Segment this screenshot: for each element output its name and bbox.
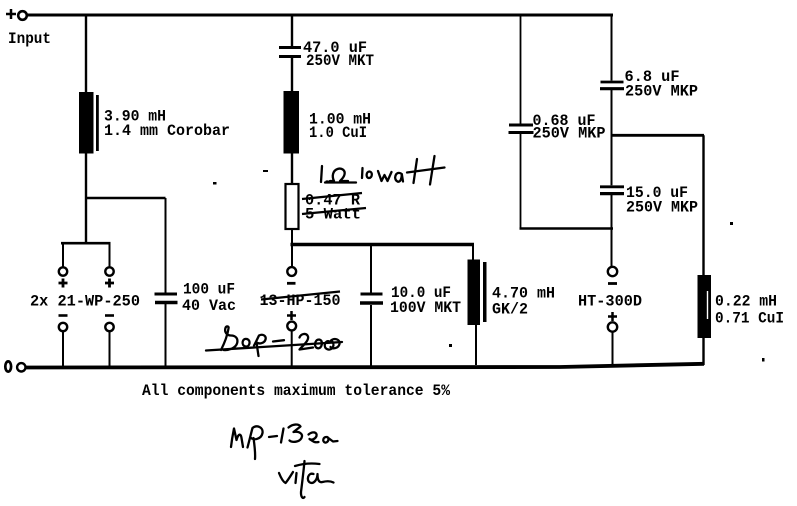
woofer B bottom terminal bbox=[105, 323, 113, 331]
inductor L4 0.22 mH body bbox=[698, 275, 712, 338]
wire mid rail to C3 bbox=[370, 246, 372, 293]
handwritten note 1 ohm 10 watt bbox=[321, 156, 445, 185]
bottom rail wire bbox=[26, 364, 704, 368]
handwritten note Bop-200 bbox=[221, 326, 340, 356]
wire L2 to R1 bbox=[291, 153, 293, 185]
capacitor C3 10uF plates bbox=[360, 294, 383, 303]
woofer B top terminal bbox=[105, 267, 113, 275]
wire tweeter to bottom rail bbox=[612, 332, 614, 368]
inductor L1 3.90 mH body bbox=[79, 92, 99, 154]
wire top rail to C6 bbox=[611, 15, 613, 81]
svg-text:All components maximum toleran: All components maximum tolerance 5% bbox=[142, 382, 450, 400]
woofer A minus mark bbox=[59, 314, 68, 317]
wire top rail to L1 bbox=[85, 15, 87, 93]
wire R1 to mid rail bbox=[291, 229, 293, 247]
wire top rail to C5 bbox=[520, 15, 522, 124]
wire C1 to L2 bbox=[291, 58, 293, 92]
midrange bottom terminal bbox=[287, 322, 296, 331]
strike over 13-HP-150 bbox=[261, 292, 340, 300]
wire branch to L4 down bbox=[702, 135, 704, 276]
svg-text:100 uF: 100 uF bbox=[183, 281, 235, 299]
wire stub to woofer A bbox=[62, 243, 64, 268]
strike over 0.47 R bbox=[302, 193, 362, 199]
svg-text:2x 21-WP-250: 2x 21-WP-250 bbox=[30, 293, 140, 311]
tweeter bottom terminal bbox=[608, 322, 617, 331]
midrange top terminal bbox=[287, 267, 296, 276]
tweeter top terminal bbox=[608, 267, 617, 276]
input plus polarity mark bbox=[6, 9, 16, 19]
capacitor C7 15uF plates bbox=[600, 187, 624, 194]
woofer A bottom terminal bbox=[59, 323, 67, 331]
woofer B minus mark bbox=[105, 314, 114, 317]
svg-text:Input: Input bbox=[8, 30, 51, 48]
wire stub to L3 bbox=[472, 246, 474, 261]
capacitor C6 6.8uF plates bbox=[600, 82, 624, 89]
wire L4 to bottom rail bbox=[702, 338, 704, 365]
wire top rail to C1 bbox=[291, 15, 293, 47]
woofer B plus mark bbox=[105, 279, 114, 288]
svg-text:GK/2: GK/2 bbox=[492, 301, 528, 319]
woofer bracket wire bbox=[61, 242, 111, 245]
strike over 5 Watt bbox=[302, 208, 366, 214]
input terminal circle bbox=[18, 11, 27, 20]
svg-text:HT-300D: HT-300D bbox=[578, 293, 642, 311]
svg-text:250V MKP: 250V MKP bbox=[626, 199, 698, 217]
inductor L2 1.00 mH body bbox=[284, 91, 300, 154]
tweeter plus mark bbox=[608, 312, 617, 321]
svg-text:0.22 mH: 0.22 mH bbox=[715, 293, 777, 311]
inductor L3 4.70 mH body bbox=[468, 260, 487, 326]
tweeter minus mark bbox=[608, 282, 617, 285]
stray scan specks bbox=[213, 170, 765, 362]
wire C3 to bottom rail bbox=[370, 305, 372, 366]
wire bottom of tweeter box bbox=[520, 227, 614, 230]
svg-text:1.4 mm Corobar: 1.4 mm Corobar bbox=[104, 122, 230, 140]
wire C5 down bbox=[520, 134, 522, 230]
wire below C4 bbox=[165, 304, 167, 366]
midrange plus mark bbox=[287, 311, 296, 320]
wire C7 to tweeter bbox=[611, 195, 613, 267]
handwritten note mp-130 bbox=[231, 425, 338, 459]
ground terminal circle bbox=[17, 363, 25, 371]
woofer A top terminal bbox=[59, 267, 67, 275]
top rail wire bbox=[27, 14, 613, 17]
wire C6 to C7 bbox=[611, 90, 613, 185]
wire branch to C4 bbox=[85, 197, 166, 200]
wire L3 to bottom rail bbox=[475, 325, 477, 365]
svg-text:250V MKP: 250V MKP bbox=[533, 125, 606, 143]
wire woofer A to bottom rail bbox=[62, 332, 64, 367]
midrange minus mark bbox=[287, 282, 296, 285]
svg-text:250V MKT: 250V MKT bbox=[306, 52, 374, 70]
woofer A plus mark bbox=[59, 279, 68, 288]
wire stub to woofer B bbox=[109, 243, 111, 268]
capacitor C5 0.68uF plates bbox=[509, 125, 534, 133]
resistor R1 body bbox=[286, 184, 299, 229]
wire branch to L4 bbox=[612, 134, 705, 137]
svg-text:40 Vac: 40 Vac bbox=[182, 297, 236, 315]
wire below L1 bbox=[85, 152, 87, 244]
svg-text:250V MKP: 250V MKP bbox=[625, 83, 698, 101]
mid rail wire bbox=[291, 243, 475, 246]
wire mid rail to midrange bbox=[291, 246, 293, 267]
strike over Bop-200 bbox=[206, 342, 342, 351]
wire midrange to bottom rail bbox=[291, 331, 293, 367]
wire down to C4 bbox=[165, 198, 167, 293]
svg-text:0.71 CuI: 0.71 CuI bbox=[715, 310, 784, 328]
svg-text:1.0 CuI: 1.0 CuI bbox=[309, 124, 367, 142]
wire woofer B to bottom rail bbox=[109, 332, 111, 367]
ground zero label bbox=[5, 361, 11, 371]
handwritten note vita bbox=[279, 461, 334, 498]
svg-text:100V MKT: 100V MKT bbox=[390, 299, 461, 317]
capacitor C1 47uF plates bbox=[279, 48, 301, 57]
capacitor C4 100uF plates bbox=[155, 294, 178, 303]
